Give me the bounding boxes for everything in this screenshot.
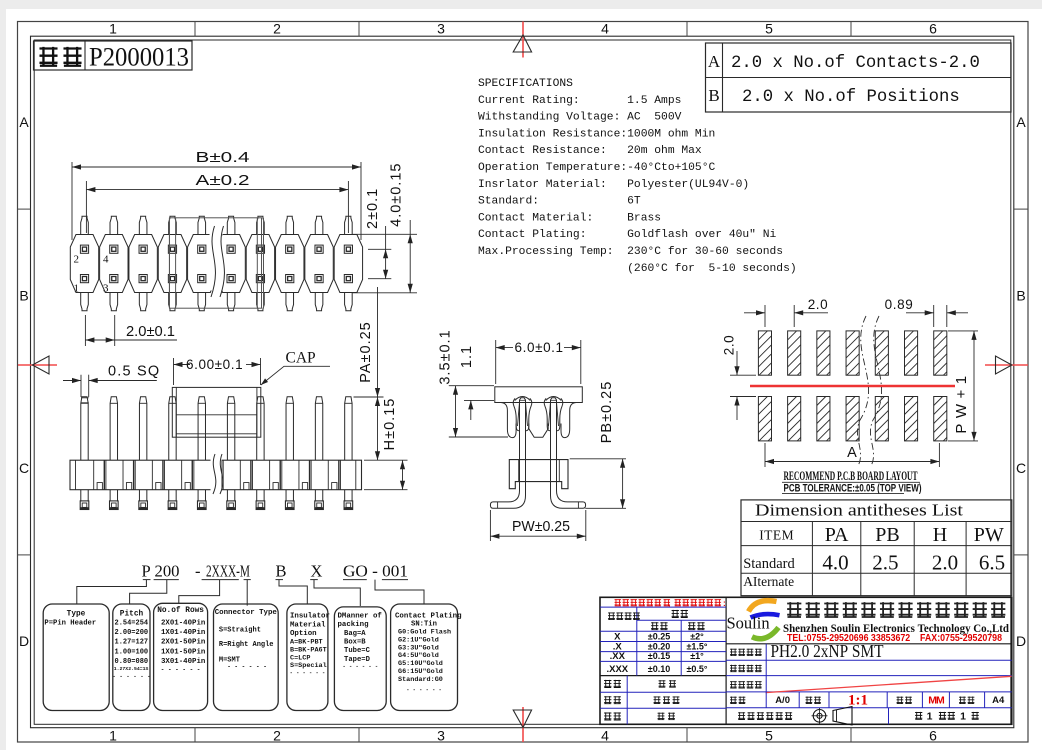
top view pin tip bottom col7 [257,293,265,311]
top view contact square col5 y249 [198,245,206,253]
svg-text:Tube=C: Tube=C [344,647,371,655]
front view pin chamfer tick col5 [198,402,205,404]
front view body unit divider col5 [221,460,223,490]
svg-text:Option: Option [290,630,317,638]
label tufu [959,697,966,704]
svg-text:PW±0.25: PW±0.25 [512,519,570,535]
dim 1.1 line [470,400,472,420]
center mark bottom red line [522,707,524,742]
svg-text:200: 200 [155,561,180,580]
top view contact square col10 y278 [344,275,352,283]
front view body unit divider col4 [191,460,193,490]
svg-text:2±0.1: 2±0.1 [365,188,381,229]
pcb pad row2 col4 [846,397,859,441]
bottom row divider [888,708,890,725]
order box Connector Type [214,604,279,711]
svg-text:2: 2 [74,254,80,266]
order box Pitch [113,604,150,711]
svg-text:1X01-50Pin: 1X01-50Pin [161,648,205,656]
svg-text:A: A [708,52,721,71]
top view pin tip bottom col6 [227,293,235,311]
svg-text:3X01-40Pin: 3X01-40Pin [161,658,205,666]
side view cap grip dome right pin [546,397,562,401]
dim PW line [490,535,585,537]
side view pin right [551,398,557,403]
front view body block lines col9 [327,460,329,490]
svg-text:A/0: A/0 [775,695,790,706]
center mark right triangle [996,356,1012,374]
svg-text:4: 4 [601,728,609,744]
svg-text:P: P [142,561,151,580]
top view pin tip bottom col5 [198,293,206,311]
side view cap grip outer flare right left pin [526,398,532,431]
pcb pad row1 col5 [875,331,888,375]
top view contact square col4 y249 [168,245,176,253]
svg-text:Contact Material: Brass: Contact Material: Brass [478,212,661,224]
top view pin tip top col7 [257,216,265,234]
title block [600,597,1012,725]
svg-text:Box=B: Box=B [344,639,366,647]
svg-text:Contact Plating: Goldflas: Contact Plating: Goldflash over 40u″ Ni [478,229,777,241]
top view barrel col1 [70,235,98,293]
svg-text:- - - - - -: - - - - - - [290,670,326,676]
top view contact square col9 y278 [315,275,323,283]
top view pin tip top col2 [110,216,118,234]
dim pcb 2.0 line [744,312,765,314]
dim PB ext bottom [585,507,626,509]
svg-text:G3:3U"Gold: G3:3U"Gold [398,644,439,652]
svg-text:1:1: 1:1 [848,693,868,709]
svg-text:±2°: ±2° [690,631,704,641]
dim 6.00 ext left [173,358,175,385]
top view contact square col8 y249 [286,245,294,253]
order box Contact Plating [391,604,458,711]
dim 2.0 pitch ext line right [114,315,116,346]
svg-text:2.54=254: 2.54=254 [115,620,149,628]
front view pin top ext line right [354,396,384,398]
top view barrel col7 [246,235,274,293]
projection symbol cone [833,707,852,726]
dim PW+1 ext lines [948,330,978,332]
svg-text:SN:Tin: SN:Tin [411,621,437,629]
front view body right wall lines [355,460,357,490]
svg-text:H: H [933,524,947,546]
dim pcb row gap ext lines [730,374,756,376]
zone ticks top band [194,22,196,37]
svg-text:Contact Resistance: 20m ohm: Contact Resistance: 20m ohm Max [478,145,702,157]
svg-text:1: 1 [960,711,966,723]
svg-text:B=BK-PA6T: B=BK-PA6T [290,646,327,654]
svg-text:P2000013: P2000013 [89,43,189,72]
center mark right red line [985,364,1028,366]
pcb break dashdot curve left [857,316,868,466]
dim pcb A line [765,461,939,463]
svg-text:- - - - - -: - - - - - - [161,667,201,674]
dim 4.0 line [409,220,411,293]
dim 2+-0.1 rows line [385,226,387,279]
top view barrel col3 [129,235,157,293]
svg-text:B: B [708,86,719,105]
dim 6.00 ext right [260,358,262,385]
soulin logo green arc [752,628,779,639]
company name chinese [787,602,801,617]
svg-text:Insulator: Insulator [290,613,330,621]
label danwei [897,697,904,704]
front view cap outer rect [172,387,260,437]
svg-text:PCB TOLERANCE:±0.05 (TOP VIEW): PCB TOLERANCE:±0.05 (TOP VIEW) [784,483,922,495]
top view contact square col4 y278 [168,275,176,283]
svg-text:0.80=080: 0.80=080 [115,658,149,666]
soulin logo blue arc [751,614,780,617]
front view smt foot col4 [168,490,170,501]
top view contact square col1 y278 [80,275,88,283]
dim body height line [402,460,404,490]
sign label shenhe [604,696,611,704]
front view body unit divider col8 [309,460,311,490]
order box Insulator [287,604,328,711]
svg-text:Insulation Resistance:1000M oh: Insulation Resistance:1000M ohm Min [478,128,715,140]
side view cap grip outer flare right right pin [557,398,563,431]
order box No.of Rows [154,603,208,710]
svg-text:H±0.15: H±0.15 [382,398,398,451]
top view contact square col6 y249 [227,245,235,253]
svg-text:-: - [195,561,201,580]
svg-text:C=LCP: C=LCP [290,654,310,662]
front view body block lines col1 [93,460,95,490]
top view break S-curve right [220,226,224,297]
svg-text:5: 5 [765,728,773,744]
dim pcb row gap line [736,351,738,375]
front view: pin header front view [63,287,408,510]
product pn row line [726,675,1012,677]
front view body bottom ext line right [364,489,408,491]
front view body notch col5 [214,483,219,490]
pcb pad row2 col1 [758,397,771,441]
top view pin tip bottom col10 [345,293,353,311]
svg-text:DManner of: DManner of [338,613,383,621]
svg-text:1: 1 [109,21,117,37]
top view contact square col3 y278 [139,275,147,283]
top view pin tip bottom col3 [139,293,147,311]
svg-text:A: A [1016,114,1026,130]
front view smt foot col6 [226,490,228,501]
dim B ext line left [71,162,73,240]
top view pin tip top col8 [286,216,294,234]
front view pin chamfer tick col2 [110,402,117,404]
svg-text:4.0±0.15: 4.0±0.15 [389,163,405,227]
tolerance table bottom line [600,675,726,677]
svg-text:SPECIFICATIONS: SPECIFICATIONS [478,78,573,90]
file red diagonal [766,676,1012,692]
leader P to Type box [77,580,147,604]
side view smt foot left toe tick [497,502,499,508]
svg-text:3: 3 [103,283,109,295]
pcb pad row1 col7 [934,331,947,375]
top view pin tip top col5 [198,216,206,234]
sign label pizhun [604,712,611,720]
svg-text:1.27X2.54=1S: 1.27X2.54=1S [114,666,149,672]
top view pin tip top col1 [81,216,89,234]
front view pin col4 [169,397,176,460]
svg-text:±1.5°: ±1.5° [686,641,707,651]
front view body unit divider col6 [250,460,252,490]
tolerance label chicunbiaozhu [608,612,615,619]
dim 1.1 ext line [464,399,494,401]
zone ticks left band [18,208,31,210]
top view pin tip top col9 [315,216,323,234]
dim 2.0 pitch ext line left [84,315,86,346]
front view smt foot col3 [138,490,140,501]
sign value you chuan [659,680,666,687]
svg-text:PW+1: PW+1 [953,370,970,433]
svg-text:2X01-40Pin: 2X01-40Pin [161,620,205,628]
front view smt foot col10 [344,490,346,501]
dim 4.0 ext line bottom [353,292,417,294]
leader M to Connector box [246,580,248,606]
svg-text:2.0±0.1: 2.0±0.1 [126,324,175,340]
dim pcb 0.89 line [906,312,934,314]
side view smt foot left [490,482,525,509]
front view pin col7 [257,397,264,460]
front view pin col2 [110,397,117,460]
front view pin chamfer tick col7 [257,402,264,404]
top view break white-out [210,225,223,291]
dim A ext line right [347,181,349,233]
top view contact square col3 y249 [139,245,147,253]
front view pin chamfer tick col6 [227,402,234,404]
svg-text:B: B [19,288,28,304]
front view smt foot col7 [256,490,258,501]
dim 3.5 ext bottom [449,436,508,438]
svg-text:±0.15: ±0.15 [648,651,670,661]
svg-text:Withstanding Voltage: AC 500V: Withstanding Voltage: AC 500V [478,112,682,124]
top view cap clamp lines col7 [256,218,258,308]
cap leader line [261,366,330,385]
svg-text:Bag=A: Bag=A [344,630,366,638]
front view pin col10 [345,397,352,460]
side view: smt header section view [438,329,627,541]
svg-text:6.00±0.1: 6.00±0.1 [186,357,243,372]
svg-text:G5:10U"Gold: G5:10U"Gold [398,660,443,668]
svg-text:PA±0.25: PA±0.25 [358,321,374,382]
svg-text:±0.10: ±0.10 [648,664,670,674]
svg-text:- - - - - -: - - - - - - [112,673,150,680]
svg-text:±0.20: ±0.20 [648,641,670,651]
front view body unit divider col3 [162,460,164,490]
dim PW+1 line [973,331,975,441]
svg-text:PW: PW [974,524,1004,546]
tolerance table red header text [615,599,622,606]
top view contact square col10 y249 [344,245,352,253]
top view pin tip top col3 [139,216,147,234]
pcb break dashdot curve right [870,316,881,466]
svg-text:PA: PA [825,524,849,546]
svg-text:1.00=100: 1.00=100 [115,648,149,656]
sign value he ling [658,713,665,720]
dim 6.00 line [174,364,191,366]
side view pin left [520,398,526,403]
top view cap outline rectangle [170,218,262,308]
svg-text:G2:1U"Gold: G2:1U"Gold [398,636,439,644]
svg-text:Contact Plating: Contact Plating [395,613,462,621]
top view barrel col5 [188,235,216,293]
svg-text:.XX: .XX [610,651,626,662]
zone ticks right band [1014,208,1028,210]
svg-text:0.89: 0.89 [885,297,914,312]
order box Manner of packing [334,607,386,711]
part number underlines [143,579,151,581]
side view cap top rect [495,387,583,403]
svg-text:±0.5°: ±0.5° [686,664,707,674]
top view contact square col2 y278 [110,275,118,283]
soulin logo orange arc [749,601,777,612]
dim pcb A ext lines [764,443,766,467]
dim 2+-0.1 rows ext line top [368,248,391,250]
pcb pad row1 col3 [817,331,830,375]
dim 3.5 line [455,386,457,437]
leader G0-001 to Plating box [375,580,424,604]
pcb pad row1 col1 [758,331,771,375]
svg-text:G0:Gold Flash: G0:Gold Flash [398,629,451,637]
front view body left wall lines [75,460,77,490]
side view smt foot right [551,482,586,509]
svg-text:6: 6 [929,728,937,744]
svg-text:(260°C for 5-10 seconds): (260°C for 5-10 seconds) [478,263,797,275]
front view smt foot col9 [314,490,316,501]
center mark left red line [18,364,57,366]
dim PB ext top [570,458,626,460]
svg-text:Connector Type: Connector Type [215,609,278,617]
dim pcb 2.0 ext lines [764,305,766,327]
svg-text:C: C [19,460,29,476]
svg-text:.XXX: .XXX [606,664,628,675]
window edge shading top [0,0,1042,9]
dim 0.5 SQ arrow left [63,380,81,382]
svg-text:AIternate: AIternate [743,574,794,589]
company row bottom line [726,643,1012,645]
svg-text:D: D [19,633,29,649]
drawing number box divider [84,41,86,70]
label bili [806,697,813,704]
leader X to Packing box [314,580,360,606]
tolerance label changdu [651,622,658,630]
front view body notch col4 [185,483,190,490]
svg-text:Insrlator Material: Polyeste: Insrlator Material: Polyester(UL94V-0) [478,179,749,191]
svg-text:S=Straight: S=Straight [219,627,261,635]
pcb pad row2 col5 [875,397,888,441]
zone ticks bottom band [194,728,196,742]
svg-text:Dimension antitheses List: Dimension antitheses List [755,501,963,520]
label chanpinxinghao [730,649,737,656]
top view contact square col7 y249 [256,245,264,253]
svg-text:PH2.0 2xNP SMT: PH2.0 2xNP SMT [771,641,884,661]
center mark top triangle [513,35,531,52]
front view pin chamfer tick col8 [286,402,293,404]
svg-text:B: B [1016,288,1025,304]
window edge shading left [0,9,6,750]
top view barrel col10 [334,235,362,293]
top view contact square col8 y278 [286,275,294,283]
pcb layout: recommended board layout [722,297,979,495]
svg-text:P=Pin Header: P=Pin Header [44,620,96,628]
svg-text:±0.25: ±0.25 [648,631,670,641]
front view pin chamfer tick col9 [315,402,322,404]
drawing number box [34,41,193,70]
front view body notch col6 [244,483,249,490]
front view pin chamfer tick col10 [345,402,352,404]
dim A ext line left [85,181,87,233]
front view body unit divider col7 [279,460,281,490]
svg-text:G6:15U"Gold: G6:15U"Gold [398,668,443,676]
svg-text:A: A [847,445,857,461]
dim pcb 0.89 ext lines [933,305,935,327]
svg-text:X: X [311,561,323,580]
svg-text:CAP: CAP [286,350,316,367]
product model row line [726,659,1012,661]
svg-text:Standard:G0: Standard:G0 [398,676,443,684]
side view cap grip outer flare left left pin [513,398,519,431]
svg-text:Current Rating: 1.5 Amps: Current Rating: 1.5 Amps [478,95,681,107]
svg-text:PB: PB [875,524,899,546]
top view: pin header top view [70,150,417,346]
svg-text:- - - - - -: - - - - - - [227,664,267,671]
svg-text:1.1: 1.1 [459,345,475,368]
side view grip inner diagonals left pin [518,401,520,426]
label disanjiaodu touying [738,712,745,720]
dim 3.5 ext top [449,385,494,387]
front view pin col1 [81,397,88,460]
top view pin tip top col10 [345,216,353,234]
front view body block lines col5 [210,460,212,490]
pcb caption line2 underline [782,493,904,495]
dim PB line [622,459,624,509]
svg-text:1: 1 [74,283,80,295]
svg-text:D: D [1016,633,1026,649]
front view smt foot col8 [285,490,287,501]
svg-text:RECOMMEND P.C.B BOARD LAYOUT: RECOMMEND P.C.B BOARD LAYOUT [784,469,918,483]
dim B line [72,166,361,168]
tolerance table col2 divider [680,620,682,675]
side view cap centre valley [529,424,548,438]
svg-text:1: 1 [109,728,117,744]
top view barrel col9 [305,235,333,293]
front view body block lines col4 [181,460,183,490]
svg-text:2X01-50Pin: 2X01-50Pin [161,639,205,647]
dim table standard row line [741,572,1012,574]
front view body block lines col8 [298,460,300,490]
tolerance table gongcha row line [637,619,726,621]
front view body outline [70,460,362,490]
dimension antitheses list table [741,500,1012,596]
tolerance rows lines [600,641,726,643]
pcb pad row1 col4 [846,331,859,375]
top view contact square col2 y249 [110,245,118,253]
front view body top ext line right [364,459,408,461]
svg-text:0.5 SQ: 0.5 SQ [108,364,160,380]
tolerance label jiaodu [688,622,695,630]
side view body inner verticals [518,460,520,482]
svg-text:4.0: 4.0 [822,551,848,575]
top view contact square col6 y278 [227,275,235,283]
side view cap grip outer flare left right pin [544,398,550,431]
dim 2.0 pitch line [85,339,177,341]
svg-text:Type: Type [67,611,86,619]
svg-text:2.0: 2.0 [722,335,737,356]
top view contact square col5 y278 [198,275,206,283]
front view body notch col8 [302,483,307,490]
dim table title row line [741,521,1012,523]
top view barrel col8 [276,235,304,293]
